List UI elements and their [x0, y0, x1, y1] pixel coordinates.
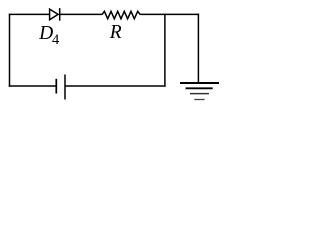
- label D4: [38, 23, 60, 48]
- wire: right side of loop (junction at top wire): [164, 14, 166, 87]
- wire: diode cathode to resistor: [60, 13, 102, 15]
- wire: top side, corner to diode anode: [9, 13, 50, 15]
- battery cell: [56, 75, 65, 100]
- wire: bottom side, corner to battery: [9, 85, 56, 87]
- wire: battery to bottom-right corner: [65, 85, 166, 87]
- ground symbol: [180, 83, 219, 100]
- wire: resistor to top-right corner: [140, 13, 199, 15]
- svg-text:R: R: [109, 22, 122, 43]
- wire: left vertical side: [9, 14, 11, 87]
- wire: drop from top-right corner to ground: [197, 14, 199, 83]
- svg-text:D: D: [38, 23, 53, 44]
- diode D4: [50, 8, 60, 21]
- resistor R: [102, 11, 140, 18]
- svg-text:4: 4: [52, 32, 60, 48]
